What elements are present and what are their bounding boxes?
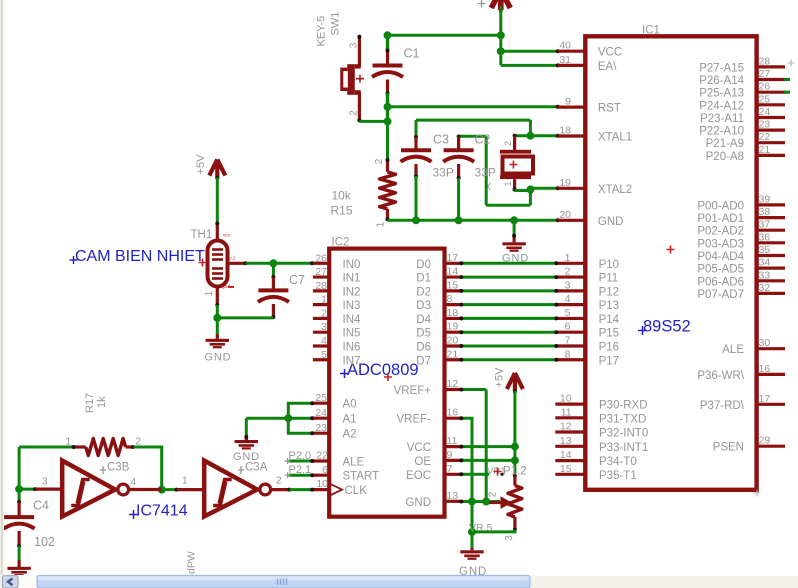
svg-text:29: 29	[759, 435, 771, 447]
svg-text:6: 6	[322, 464, 328, 476]
svg-text:P20-A8: P20-A8	[706, 151, 744, 163]
svg-text:14: 14	[560, 449, 572, 461]
svg-text:IN6: IN6	[343, 341, 361, 353]
svg-text:IN7: IN7	[343, 355, 361, 367]
svg-text:40: 40	[559, 40, 571, 52]
svg-text:D6: D6	[416, 341, 431, 353]
svg-text:IC2: IC2	[332, 237, 350, 249]
svg-text:28: 28	[315, 280, 327, 292]
svg-text:2: 2	[136, 437, 142, 448]
svg-text:VREF-: VREF-	[397, 414, 432, 426]
svg-text:ALE: ALE	[722, 344, 744, 356]
svg-text:P17: P17	[599, 355, 619, 367]
svg-text:33P: 33P	[475, 166, 496, 180]
svg-text:10k: 10k	[332, 189, 352, 203]
svg-text:3: 3	[42, 477, 48, 488]
svg-text:IN0: IN0	[343, 259, 361, 271]
svg-text:21: 21	[447, 348, 459, 360]
svg-text:20: 20	[447, 334, 459, 346]
svg-text:P23-A11: P23-A11	[700, 113, 744, 125]
svg-text:12: 12	[560, 421, 572, 433]
svg-text:P13: P13	[599, 300, 619, 312]
svg-text:P16: P16	[599, 341, 619, 353]
svg-text:4: 4	[131, 477, 137, 488]
svg-text:VREF+: VREF+	[394, 385, 432, 397]
svg-text:3: 3	[565, 279, 571, 291]
svg-text:P11: P11	[599, 273, 619, 285]
svg-text:P03-AD3: P03-AD3	[697, 238, 744, 250]
svg-text:ALE: ALE	[343, 457, 365, 469]
svg-text:D0: D0	[416, 259, 431, 271]
svg-text:14: 14	[447, 266, 459, 278]
svg-text:+5V: +5V	[195, 154, 207, 175]
svg-text:XTAL1: XTAL1	[598, 132, 632, 144]
svg-text:16: 16	[447, 407, 459, 419]
svg-text:9: 9	[565, 96, 571, 108]
svg-text:P10: P10	[599, 259, 619, 271]
svg-text:26: 26	[315, 252, 327, 264]
svg-text:89S52: 89S52	[643, 318, 691, 336]
svg-text:P30-RXD: P30-RXD	[599, 400, 648, 412]
svg-text:P21-A9: P21-A9	[706, 138, 744, 150]
svg-text:P26-A14: P26-A14	[699, 75, 744, 87]
svg-text:2: 2	[565, 266, 571, 278]
svg-text:36: 36	[759, 231, 771, 243]
svg-text:37: 37	[759, 219, 771, 231]
svg-text:1: 1	[503, 181, 513, 186]
svg-text:C4: C4	[33, 499, 49, 513]
svg-text:1k: 1k	[96, 396, 108, 408]
svg-text:15: 15	[560, 463, 572, 475]
svg-text:25: 25	[315, 392, 327, 404]
svg-text:C3: C3	[433, 133, 449, 147]
svg-text:P04-AD4: P04-AD4	[697, 251, 744, 263]
svg-text:P31-TXD: P31-TXD	[599, 413, 646, 425]
svg-text:31: 31	[559, 54, 571, 66]
svg-text:4: 4	[321, 335, 327, 347]
svg-text:D1: D1	[416, 273, 431, 285]
svg-text:4: 4	[565, 293, 571, 305]
svg-text:P33-INT1: P33-INT1	[599, 442, 648, 454]
svg-text:9: 9	[447, 449, 453, 461]
svg-text:15: 15	[447, 279, 459, 291]
svg-text:D3: D3	[416, 300, 431, 312]
svg-text:P07-AD7: P07-AD7	[697, 289, 744, 301]
svg-text:P06-AD6: P06-AD6	[697, 276, 744, 288]
svg-text:R15: R15	[331, 204, 353, 218]
svg-text:28: 28	[759, 55, 771, 67]
svg-text:D5: D5	[416, 328, 431, 340]
svg-text:VCC: VCC	[407, 442, 431, 454]
svg-text:CLK: CLK	[345, 485, 368, 497]
svg-text:GND: GND	[205, 352, 232, 364]
svg-text:2: 2	[321, 307, 327, 319]
svg-text:21: 21	[759, 144, 771, 156]
svg-text:35: 35	[759, 244, 771, 256]
svg-text:2: 2	[503, 141, 513, 146]
svg-text:o.2: o.2	[229, 256, 236, 262]
svg-text:32: 32	[759, 282, 771, 294]
svg-text:P05-AD5: P05-AD5	[697, 264, 744, 276]
svg-text:11: 11	[447, 435, 458, 447]
svg-text:C3B: C3B	[107, 462, 130, 474]
svg-text:33: 33	[759, 269, 771, 281]
svg-text:vcc: vcc	[223, 234, 231, 239]
svg-text:13: 13	[447, 490, 459, 502]
svg-text:18: 18	[447, 307, 459, 319]
svg-text:C7: C7	[289, 273, 305, 287]
svg-text:D4: D4	[416, 314, 431, 326]
svg-text:8: 8	[565, 348, 571, 360]
svg-text:IC1: IC1	[642, 25, 660, 37]
svg-text:1: 1	[182, 476, 188, 487]
svg-text:3: 3	[349, 42, 360, 48]
svg-text:27: 27	[759, 68, 771, 80]
svg-text:P2.1: P2.1	[289, 464, 312, 476]
svg-text:P24-A12: P24-A12	[699, 100, 744, 112]
svg-text:6: 6	[565, 321, 571, 333]
svg-text:3: 3	[321, 321, 327, 333]
svg-text:22: 22	[316, 450, 328, 462]
svg-text:10: 10	[316, 478, 328, 490]
svg-text:23: 23	[759, 119, 771, 131]
svg-text:P01-AD1: P01-AD1	[697, 213, 744, 225]
svg-text:19: 19	[559, 177, 571, 189]
svg-text:P37-RD\: P37-RD\	[700, 400, 745, 412]
svg-text:7: 7	[565, 334, 571, 346]
svg-text:SW1: SW1	[330, 12, 342, 36]
svg-text:dPW: dPW	[186, 551, 198, 574]
svg-text:2: 2	[276, 476, 282, 487]
svg-text:P1.2: P1.2	[503, 466, 527, 478]
svg-text:IC7414: IC7414	[136, 503, 188, 520]
svg-text:27: 27	[315, 266, 327, 278]
svg-text:39: 39	[759, 193, 771, 205]
svg-text:OE: OE	[414, 456, 431, 468]
svg-text:24: 24	[759, 106, 771, 118]
svg-text:17: 17	[447, 252, 459, 264]
svg-text:38: 38	[759, 206, 771, 218]
svg-text:33P: 33P	[433, 166, 454, 180]
svg-text:30: 30	[759, 337, 771, 349]
svg-text:8: 8	[447, 293, 453, 305]
svg-text:IN4: IN4	[343, 314, 362, 326]
svg-text:5: 5	[321, 349, 327, 361]
svg-text:13: 13	[560, 435, 572, 447]
svg-text:GND: GND	[598, 216, 624, 228]
svg-text:17: 17	[759, 393, 771, 405]
svg-text:P00-AD0: P00-AD0	[697, 200, 744, 212]
svg-text:26: 26	[759, 81, 771, 93]
svg-text:P34-T0: P34-T0	[599, 456, 637, 468]
svg-text:2: 2	[349, 110, 360, 116]
svg-text:+5V: +5V	[494, 367, 506, 388]
svg-text:CAM BIEN NHIET: CAM BIEN NHIET	[75, 248, 205, 265]
svg-text:C2: C2	[475, 133, 491, 147]
svg-text:A2: A2	[343, 429, 357, 441]
svg-text:IN1: IN1	[343, 273, 361, 285]
svg-text:IN5: IN5	[343, 328, 361, 340]
svg-text:XTAL2: XTAL2	[598, 184, 632, 196]
svg-text:P15: P15	[599, 328, 619, 340]
svg-text:1: 1	[321, 294, 327, 306]
svg-text:C3A: C3A	[245, 462, 268, 474]
svg-text:1: 1	[565, 252, 571, 264]
svg-text:R17: R17	[84, 393, 96, 413]
svg-text:P22-A10: P22-A10	[699, 126, 744, 138]
svg-text:102: 102	[34, 535, 55, 549]
svg-text:11: 11	[561, 406, 572, 418]
svg-text:D2: D2	[416, 286, 431, 298]
svg-text:START: START	[343, 471, 380, 483]
svg-text:12: 12	[447, 378, 459, 390]
svg-text:25: 25	[759, 93, 771, 105]
svg-text:10: 10	[560, 393, 572, 405]
svg-text:IN2: IN2	[343, 286, 361, 298]
svg-text:P25-A13: P25-A13	[699, 88, 744, 100]
svg-text:P32-INT0: P32-INT0	[599, 428, 648, 440]
svg-text:3: 3	[504, 535, 515, 541]
svg-text:18: 18	[559, 125, 571, 137]
svg-text:PSEN: PSEN	[713, 442, 744, 454]
svg-text:1: 1	[204, 290, 215, 296]
svg-text:TH1: TH1	[191, 229, 213, 241]
svg-text:2: 2	[488, 491, 499, 497]
svg-text:P14: P14	[599, 314, 620, 326]
svg-text:5: 5	[565, 307, 571, 319]
svg-text:1: 1	[65, 437, 71, 448]
svg-text:P12: P12	[599, 286, 619, 298]
svg-text:KEY-5: KEY-5	[316, 16, 328, 47]
svg-text:P2.0: P2.0	[289, 450, 312, 462]
svg-text:GND: GND	[405, 497, 431, 509]
svg-text:P35-T1: P35-T1	[599, 470, 637, 482]
svg-text:P27-A15: P27-A15	[699, 62, 744, 74]
svg-text:C1: C1	[404, 47, 420, 61]
svg-text:P36-WR\: P36-WR\	[697, 370, 744, 382]
svg-text:19: 19	[447, 321, 459, 333]
svg-text:A0: A0	[343, 399, 357, 411]
svg-text:RST: RST	[598, 103, 621, 115]
svg-text:EOC: EOC	[406, 470, 431, 482]
svg-text:23: 23	[315, 422, 327, 434]
svg-text:D7: D7	[416, 355, 431, 367]
svg-text:1: 1	[376, 221, 387, 227]
svg-text:2: 2	[374, 158, 385, 164]
svg-text:22: 22	[759, 131, 771, 143]
svg-text:7: 7	[447, 463, 453, 475]
svg-text:EA\: EA\	[598, 61, 617, 73]
svg-text:IN3: IN3	[343, 300, 361, 312]
svg-text:16: 16	[759, 363, 771, 375]
svg-text:20: 20	[559, 209, 571, 221]
svg-text:VR.5: VR.5	[469, 522, 493, 534]
svg-text:24: 24	[315, 407, 327, 419]
svg-text:34: 34	[759, 257, 771, 269]
svg-text:VCC: VCC	[598, 47, 622, 59]
svg-text:P02-AD2: P02-AD2	[697, 226, 744, 238]
svg-text:A1: A1	[343, 414, 357, 426]
